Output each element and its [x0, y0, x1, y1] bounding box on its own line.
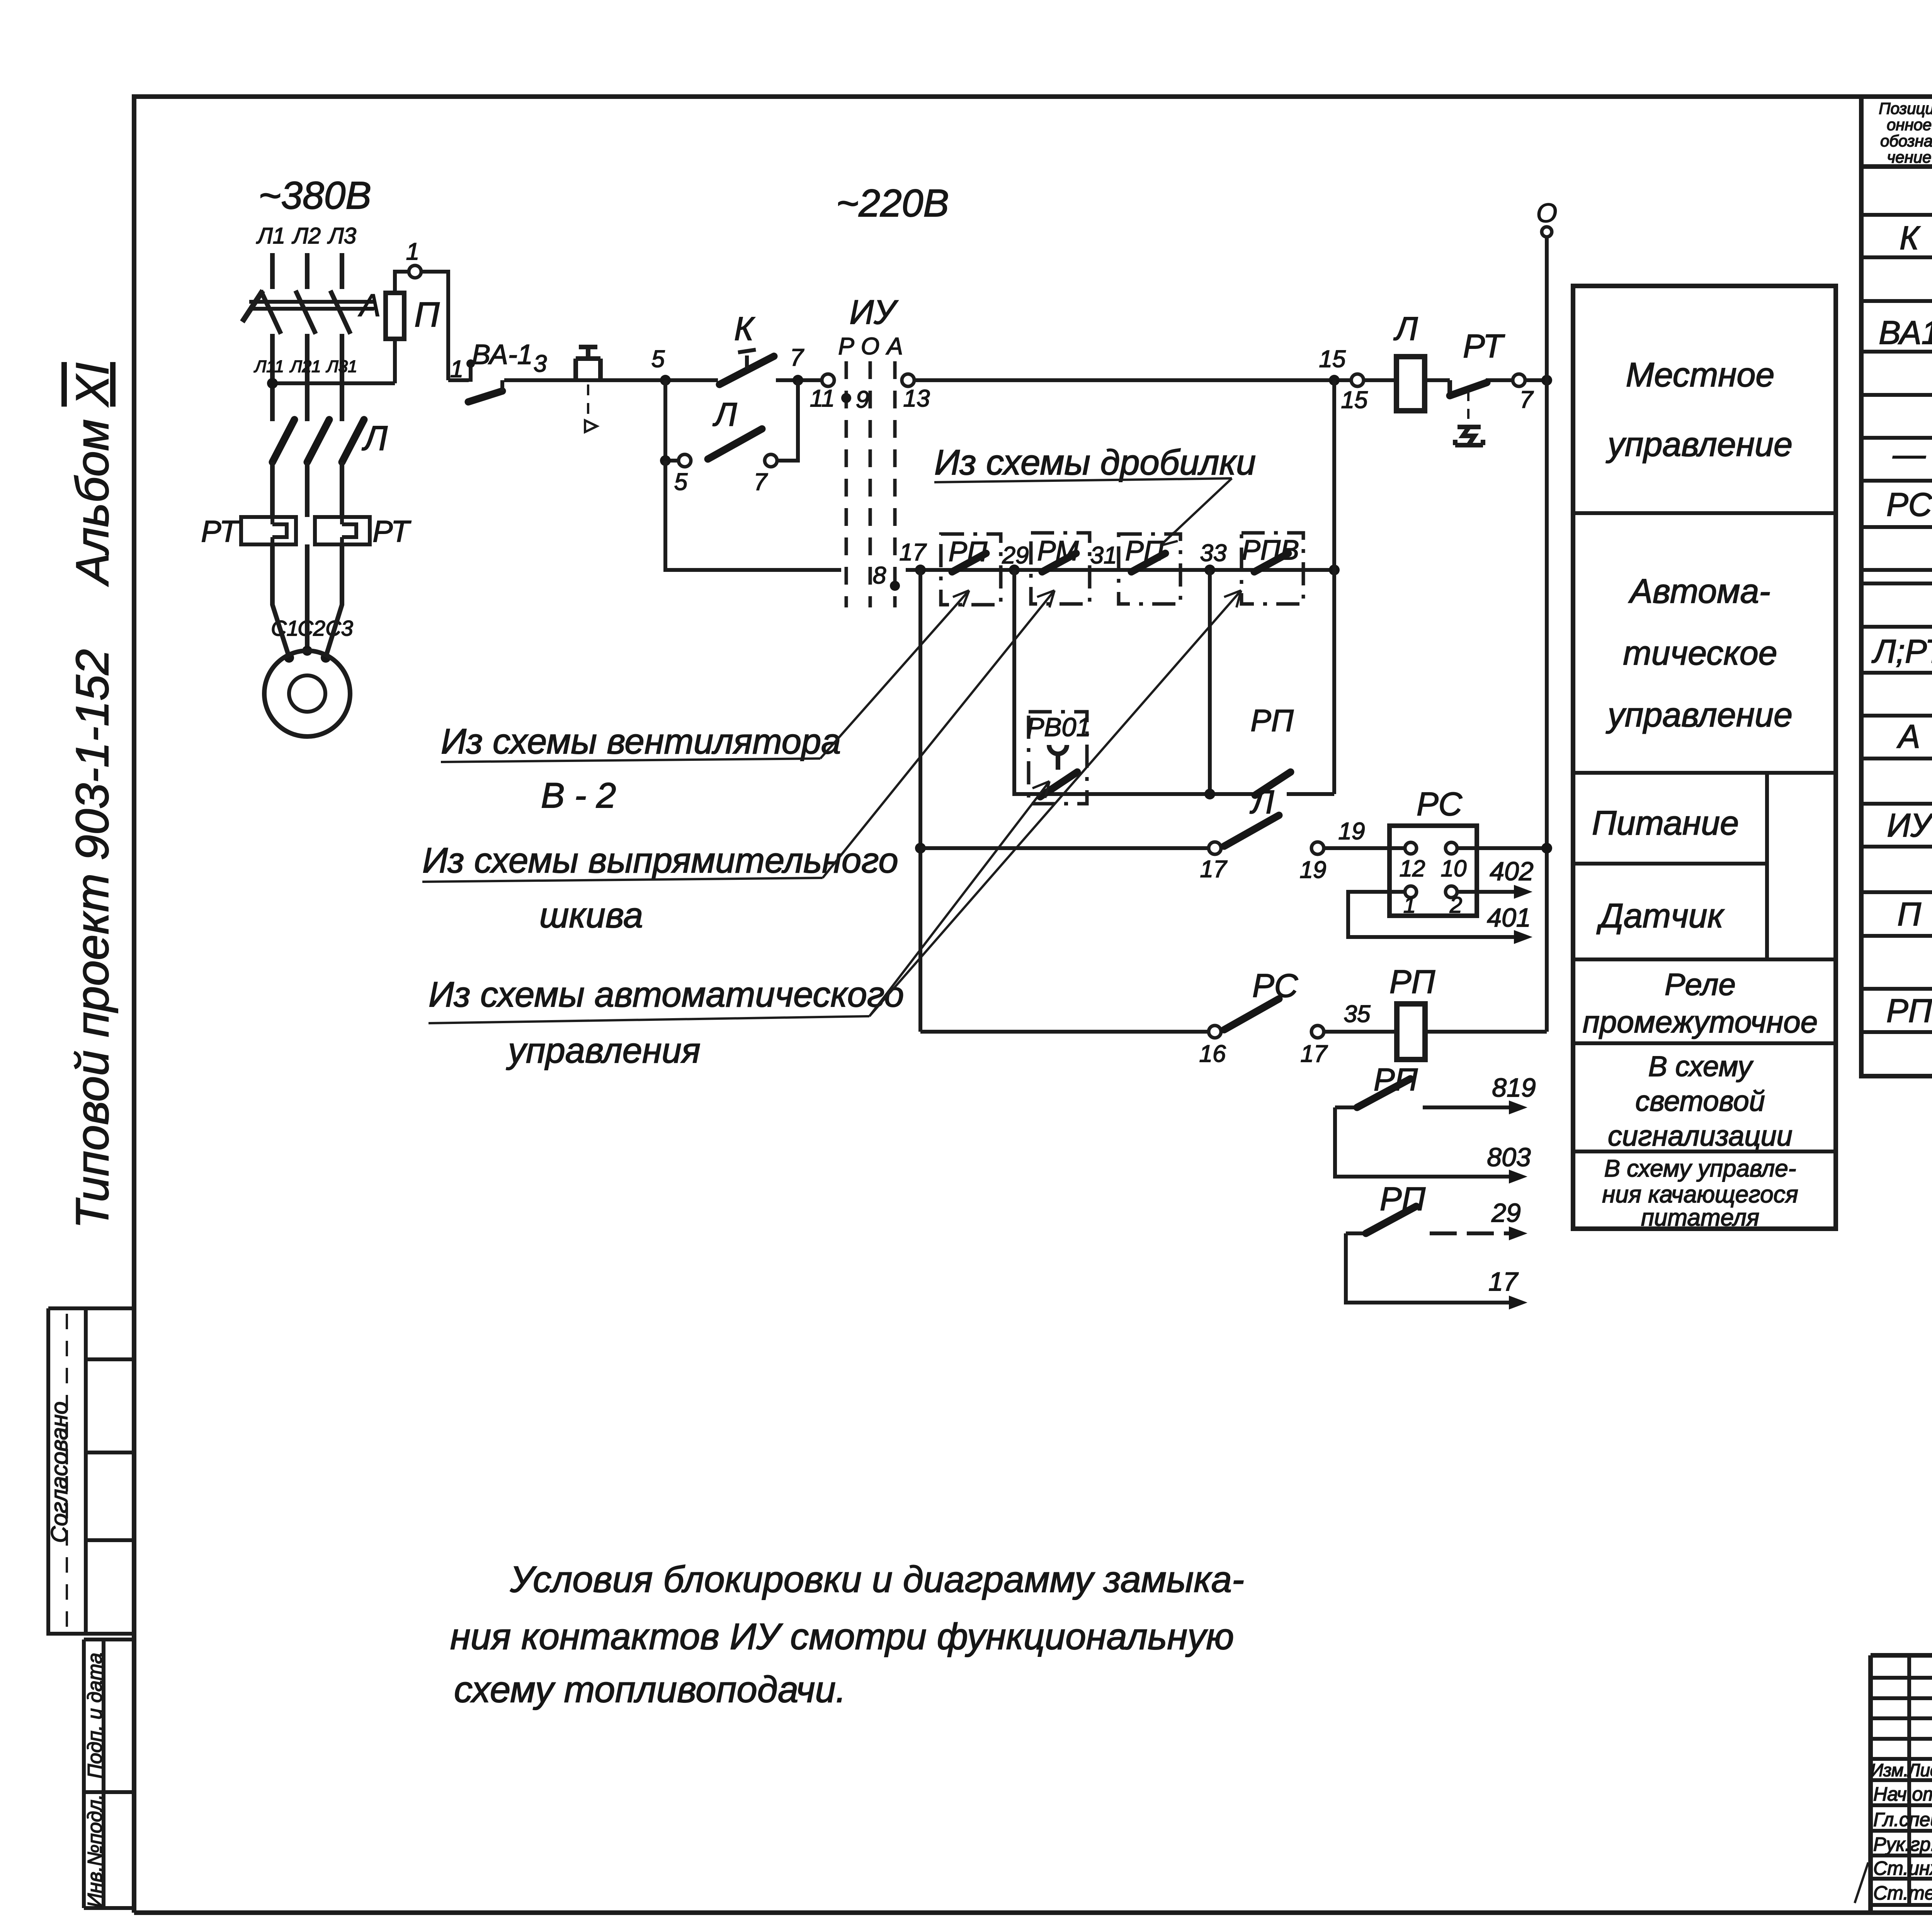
- svg-text:Рук.гр.: Рук.гр.: [1873, 1833, 1932, 1855]
- self-hold branch wires: [665, 380, 798, 461]
- wire 401 with arrow: [1348, 892, 1514, 937]
- svg-text:Л21: Л21: [289, 357, 321, 376]
- node 7 junction: [793, 375, 803, 386]
- terminal 17 circle: [1209, 842, 1221, 854]
- svg-text:~220В: ~220В: [836, 182, 949, 225]
- svg-text:РС: РС: [1886, 486, 1932, 523]
- thermal relay PT heater right: [315, 517, 370, 544]
- node 15 junction: [1329, 375, 1340, 386]
- svg-text:5: 5: [651, 346, 665, 372]
- relay contact RPV dashed box: [1242, 533, 1303, 604]
- svg-text:Условия блокировки и диаграмму: Условия блокировки и диаграмму замыка-: [510, 1559, 1244, 1600]
- fuse P body: [386, 293, 404, 339]
- svg-text:ВА1: ВА1: [1879, 315, 1932, 351]
- svg-text:С2: С2: [298, 616, 325, 640]
- svg-text:8: 8: [873, 562, 886, 589]
- svg-text:Альбом XI: Альбом XI: [66, 362, 118, 587]
- svg-text:1: 1: [450, 356, 463, 383]
- svg-text:Лист: Лист: [1907, 1760, 1932, 1780]
- wire node29 down to RV01 branch: [1014, 570, 1029, 794]
- svg-text:401: 401: [1487, 903, 1531, 932]
- svg-text:П: П: [414, 296, 440, 334]
- junction with rail: [1541, 375, 1552, 386]
- svg-text:17: 17: [1488, 1267, 1519, 1296]
- svg-text:29: 29: [1491, 1198, 1521, 1228]
- component table grid: [1861, 97, 1932, 1076]
- interposing relay branch wire: [920, 1030, 1547, 1034]
- svg-text:803: 803: [1487, 1143, 1531, 1172]
- title block change-table rows: [1871, 1678, 1932, 1905]
- RV01 blade: [1040, 772, 1077, 797]
- phase wires after breaker: [272, 334, 342, 421]
- node 33 wire down: [1208, 570, 1212, 794]
- IU contact mark on A (node 8): [890, 581, 900, 591]
- RM blade: [1042, 553, 1076, 572]
- svg-text:обозна-: обозна-: [1880, 132, 1932, 150]
- RP aux contact row 17: [1346, 1233, 1527, 1310]
- signature rows: [1873, 1783, 1932, 1904]
- svg-text:шкива: шкива: [539, 896, 643, 935]
- svg-text:~380В: ~380В: [259, 174, 371, 217]
- svg-text:Л31: Л31: [325, 357, 357, 376]
- svg-text:12: 12: [1400, 855, 1425, 881]
- terminal 15 circle: [1351, 374, 1364, 386]
- svg-text:35: 35: [1344, 1001, 1371, 1027]
- svg-text:В схему: В схему: [1648, 1050, 1754, 1082]
- breaker A: actuator slash: [242, 291, 263, 322]
- speed relay PC contact (NO): [1224, 999, 1279, 1030]
- svg-text:А: А: [358, 288, 381, 323]
- contactor L aux contact (NO): [1224, 815, 1279, 846]
- svg-text:промежуточное: промежуточное: [1583, 1005, 1818, 1039]
- sidebar table Согласовано box: [46, 1308, 134, 1634]
- PC pin 12: [1405, 842, 1417, 854]
- svg-text:Инв.№подл.: Инв.№подл.: [84, 1794, 106, 1908]
- PC pin 1: [1405, 886, 1417, 898]
- circuit breaker A: three blades: [261, 291, 350, 334]
- phase supply stubs: [272, 253, 342, 289]
- svg-text:819: 819: [1492, 1073, 1536, 1102]
- leads into motor: [272, 603, 342, 657]
- wire from node 1 down to control line: [421, 272, 448, 380]
- svg-text:тическое: тическое: [1623, 634, 1777, 672]
- svg-text:Из схемы вентилятора: Из схемы вентилятора: [441, 722, 841, 761]
- svg-text:К: К: [734, 311, 755, 347]
- svg-text:РТ: РТ: [1463, 328, 1505, 365]
- RP aux contact row 819: [1335, 1062, 1536, 1114]
- table header texts: [1879, 99, 1932, 167]
- junction on RV01 branch: [1204, 789, 1215, 799]
- thermal relay PT contact (NC): [1450, 380, 1487, 445]
- svg-text:ВА-1: ВА-1: [472, 339, 533, 370]
- svg-text:11: 11: [810, 385, 835, 412]
- wire 402 with arrow: [1457, 890, 1514, 894]
- svg-text:Датчик: Датчик: [1596, 896, 1725, 935]
- svg-text:402: 402: [1490, 857, 1533, 886]
- svg-text:А: А: [1896, 718, 1920, 755]
- svg-text:7: 7: [754, 469, 768, 495]
- svg-text:Л: Л: [362, 419, 388, 458]
- svg-text:17: 17: [1200, 856, 1228, 883]
- svg-text:Ст.инж.: Ст.инж.: [1873, 1857, 1932, 1879]
- svg-text:Подп. и дата: Подп. и дата: [84, 1653, 106, 1779]
- title block change-table columns: [1909, 1655, 1932, 1905]
- note paragraph: [450, 1559, 1244, 1710]
- svg-text:Типовой проект 903-1-152: Типовой проект 903-1-152: [66, 649, 118, 1229]
- svg-text:Гл.спец.: Гл.спец.: [1873, 1809, 1932, 1830]
- svg-text:10: 10: [1441, 855, 1467, 881]
- node 33 junction: [1204, 565, 1215, 575]
- svg-text:РС: РС: [1417, 786, 1463, 823]
- leader to RM: [823, 590, 1054, 878]
- svg-text:3: 3: [534, 350, 547, 377]
- svg-text:чение: чение: [1887, 148, 1932, 166]
- svg-text:сигнализации: сигнализации: [1608, 1120, 1793, 1152]
- svg-text:7: 7: [1520, 386, 1534, 413]
- svg-text:РТ: РТ: [372, 514, 412, 548]
- fuse wires: [395, 272, 409, 383]
- contactor coil L: [1396, 357, 1425, 411]
- title block outer box: [1871, 1655, 1932, 1913]
- svg-text:онное: онное: [1887, 116, 1932, 134]
- terminal 19 circle: [1311, 842, 1324, 854]
- svg-text:О: О: [1536, 198, 1557, 228]
- svg-text:Нач.отд.: Нач.отд.: [1873, 1783, 1932, 1805]
- frame bottom line: [134, 1910, 1932, 1915]
- svg-text:2: 2: [1449, 893, 1462, 918]
- svg-text:Л11: Л11: [253, 357, 284, 376]
- svg-text:РВ01: РВ01: [1027, 713, 1091, 742]
- svg-text:1: 1: [406, 238, 419, 265]
- svg-text:управление: управление: [1606, 696, 1793, 734]
- svg-text:ИУ: ИУ: [1887, 807, 1932, 844]
- check tick at block left: [1855, 1862, 1868, 1903]
- svg-text:РП: РП: [1250, 703, 1294, 738]
- breaker A: linkage double bar: [249, 302, 374, 309]
- node 1 terminal circle: [409, 265, 421, 278]
- node 5 junction: [660, 375, 671, 386]
- PC pin 10: [1446, 842, 1457, 854]
- svg-text:ния контактов ИУ смотри функци: ния контактов ИУ смотри функциональную: [450, 1616, 1234, 1657]
- svg-text:17: 17: [900, 539, 927, 566]
- svg-text:5: 5: [674, 469, 688, 495]
- svg-text:Автома-: Автома-: [1628, 572, 1770, 610]
- svg-text:РТ: РТ: [201, 514, 240, 548]
- svg-text:33: 33: [1200, 540, 1227, 566]
- destination boxes column: [1573, 286, 1836, 1231]
- svg-text:Ст.техн.: Ст.техн.: [1873, 1882, 1932, 1904]
- wire node15 down: [1332, 380, 1336, 794]
- interlock chain wire: [906, 568, 1334, 572]
- svg-text:Изм.: Изм.: [1871, 1760, 1908, 1780]
- relay contact RP1 dashed box: [941, 534, 1001, 605]
- svg-text:Местное: Местное: [1626, 355, 1775, 394]
- terminal 13 circle: [902, 374, 914, 386]
- svg-text:ИУ: ИУ: [849, 293, 898, 331]
- RP2 blade: [1131, 553, 1165, 572]
- svg-text:Л;РТ: Л;РТ: [1871, 633, 1932, 670]
- terminal 5 circle: [679, 454, 691, 467]
- branch wire from node 5 down to interlock line: [665, 461, 841, 570]
- junction with rail: [1541, 843, 1552, 854]
- svg-text:К: К: [1900, 220, 1921, 257]
- phase wires to thermal elements: [272, 462, 342, 603]
- svg-text:В - 2: В - 2: [541, 776, 616, 815]
- neutral rail wire: [1545, 237, 1549, 1032]
- svg-text:Л: Л: [1393, 311, 1418, 347]
- leader to RV01: [869, 781, 1049, 1016]
- terminal 16 circle: [1209, 1026, 1221, 1038]
- svg-text:О: О: [861, 333, 879, 360]
- thermal relay PT heater left: [241, 517, 296, 544]
- svg-text:16: 16: [1199, 1041, 1226, 1067]
- svg-text:19: 19: [1338, 818, 1365, 845]
- svg-text:Согласовано: Согласовано: [46, 1401, 72, 1543]
- feed branch wire: [920, 846, 1547, 850]
- svg-text:РП: РП: [1389, 964, 1435, 1000]
- svg-text:РП: РП: [1886, 993, 1932, 1029]
- RV01 branch wire: [1029, 792, 1334, 796]
- svg-text:Л: Л: [1250, 784, 1274, 821]
- svg-text:Из схемы дробилки: Из схемы дробилки: [934, 443, 1256, 482]
- svg-text:Л1: Л1: [256, 223, 285, 248]
- limit switch BA-1 (NC): [466, 359, 502, 402]
- time relay RV01 dashed box: [1029, 712, 1087, 804]
- leader to RP1: [820, 590, 969, 759]
- svg-text:РС: РС: [1252, 968, 1298, 1004]
- svg-text:схему топливоподачи.: схему топливоподачи.: [454, 1669, 846, 1710]
- svg-text:31: 31: [1090, 542, 1117, 569]
- contactor L main contacts: [272, 420, 364, 462]
- svg-text:1: 1: [1403, 893, 1416, 918]
- motor terminal dots: [284, 653, 294, 663]
- relay contact RM dashed box: [1031, 533, 1090, 604]
- svg-text:Позици-: Позици-: [1879, 99, 1932, 117]
- sidebar table Подп. и дата box: [84, 1639, 134, 1908]
- RP aux contact row 803: [1335, 1107, 1531, 1184]
- relay coil RP: [1397, 1004, 1425, 1060]
- svg-text:питателя: питателя: [1641, 1204, 1759, 1231]
- change-table header: [1871, 1760, 1932, 1780]
- svg-text:19: 19: [1300, 857, 1327, 883]
- svg-text:Питание: Питание: [1592, 804, 1739, 842]
- svg-text:Р: Р: [838, 333, 854, 360]
- node 29 junction: [1009, 565, 1020, 575]
- svg-text:7: 7: [790, 344, 804, 371]
- svg-text:15: 15: [1319, 346, 1346, 372]
- node 15 lower junction: [1329, 565, 1340, 575]
- svg-text:В схему управле-: В схему управле-: [1604, 1155, 1796, 1182]
- IU position dashed lines: [846, 361, 895, 607]
- svg-text:13: 13: [903, 385, 930, 412]
- branch junction: [660, 455, 671, 466]
- svg-text:15: 15: [1341, 387, 1368, 413]
- contactor L aux contact (NO): [708, 429, 762, 459]
- svg-text:9: 9: [856, 386, 869, 413]
- RV01 time contact symbol: [1049, 745, 1067, 770]
- pushbutton K (NO, start): [719, 350, 774, 384]
- svg-text:А: А: [885, 333, 903, 360]
- svg-text:световой: световой: [1635, 1085, 1765, 1117]
- leader to RPV: [869, 590, 1241, 1016]
- PC pin 2: [1446, 886, 1457, 898]
- leader to RP2: [1160, 478, 1232, 546]
- terminal 17 circle: [1311, 1026, 1324, 1038]
- svg-text:управления: управления: [506, 1031, 701, 1070]
- IU contact mark on P (node 9): [841, 393, 851, 403]
- svg-text:Реле: Реле: [1665, 967, 1736, 1002]
- RP1 blade: [952, 553, 986, 572]
- RPV blade: [1254, 553, 1288, 572]
- svg-text:П: П: [1897, 896, 1921, 933]
- terminal 7 circle right: [1513, 374, 1525, 386]
- left rail from node 17 down: [918, 570, 922, 1032]
- svg-text:Из схемы автоматического: Из схемы автоматического: [429, 975, 904, 1014]
- RP aux blade on RV01 branch: [1255, 772, 1291, 795]
- control main wire segments: [448, 378, 1547, 382]
- svg-text:Л2: Л2: [291, 223, 321, 248]
- motor body: [264, 651, 350, 736]
- svg-text:ния качающегося: ния качающегося: [1602, 1181, 1798, 1208]
- svg-text:—: —: [1893, 436, 1926, 473]
- svg-text:Л: Л: [713, 396, 737, 433]
- RP aux contact row 29: [1346, 1181, 1527, 1240]
- node 17 junction: [915, 565, 926, 575]
- motor rotor: [289, 675, 325, 712]
- svg-text:управление: управление: [1606, 425, 1793, 463]
- terminal 11 circle: [822, 374, 834, 386]
- junction on phase 1: [267, 378, 278, 389]
- svg-text:Л3: Л3: [327, 223, 356, 248]
- relay contact RP2 dashed box: [1119, 534, 1180, 604]
- svg-text:17: 17: [1301, 1041, 1328, 1067]
- pushbutton K (NC, stop): [576, 347, 600, 432]
- junction on feed branch: [915, 843, 926, 854]
- control tap bus wire: [272, 381, 395, 385]
- terminal 7 circle: [765, 454, 777, 467]
- speed relay PC box: [1389, 826, 1477, 916]
